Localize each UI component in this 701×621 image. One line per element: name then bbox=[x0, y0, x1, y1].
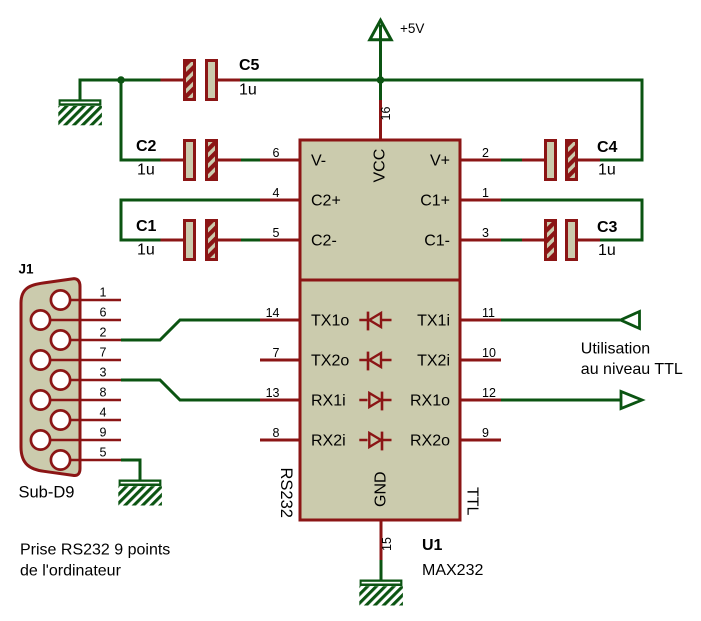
buffer arrow RX2 bbox=[359, 432, 391, 451]
pin label V- bbox=[311, 153, 326, 170]
connector pin 1 bbox=[61, 299, 122, 302]
pin label C2+ bbox=[311, 193, 341, 210]
svg-text:C2: C2 bbox=[136, 138, 157, 155]
svg-text:de l'ordinateur: de l'ordinateur bbox=[20, 563, 122, 580]
svg-text:1u: 1u bbox=[137, 242, 155, 259]
svg-text:3: 3 bbox=[100, 366, 107, 380]
svg-text:13: 13 bbox=[266, 386, 280, 400]
pin number 3 bbox=[482, 226, 489, 240]
wire pin12 to TTL output arrow bbox=[501, 399, 621, 402]
capacitor C4 bbox=[522, 141, 600, 180]
label C3 bbox=[597, 219, 618, 236]
connector pin 2 bbox=[61, 339, 122, 342]
value 1u bbox=[239, 82, 257, 99]
pin 14 stub TX1o bbox=[260, 319, 300, 322]
svg-text:1u: 1u bbox=[137, 162, 155, 179]
svg-text:C2+: C2+ bbox=[311, 193, 341, 210]
svg-text:12: 12 bbox=[482, 386, 496, 400]
svg-text:5: 5 bbox=[273, 226, 280, 240]
pin label TX1o bbox=[311, 313, 349, 330]
connector pin 3 bbox=[61, 379, 122, 382]
svg-text:15: 15 bbox=[380, 537, 394, 551]
svg-text:14: 14 bbox=[266, 306, 280, 320]
svg-text:8: 8 bbox=[100, 386, 107, 400]
svg-text:U1: U1 bbox=[422, 537, 443, 554]
pin number 9 bbox=[482, 426, 489, 440]
svg-text:VCC: VCC bbox=[372, 149, 389, 183]
svg-text:TX2i: TX2i bbox=[417, 353, 450, 370]
connector pin 9 bbox=[41, 439, 122, 442]
wire right vertical from rail to C4 bbox=[600, 79, 642, 161]
pin number 8 bbox=[273, 426, 280, 440]
svg-text:V+: V+ bbox=[430, 153, 450, 170]
svg-text:7: 7 bbox=[100, 346, 107, 360]
connector pin 8 bbox=[41, 399, 122, 402]
svg-text:RX2o: RX2o bbox=[410, 433, 450, 450]
svg-text:C4: C4 bbox=[597, 139, 618, 156]
svg-text:4: 4 bbox=[100, 406, 107, 420]
svg-text:2: 2 bbox=[482, 146, 489, 160]
pin number 5 bbox=[100, 446, 107, 460]
svg-text:TX1o: TX1o bbox=[311, 313, 349, 330]
svg-text:RS232: RS232 bbox=[277, 468, 295, 518]
label TTL rotated bbox=[464, 487, 481, 516]
connector pin 6 bbox=[41, 319, 122, 322]
svg-text:TX1i: TX1i bbox=[417, 313, 450, 330]
pin 10 stub TX2i bbox=[460, 359, 501, 362]
svg-text:C2-: C2- bbox=[311, 233, 337, 250]
pin number 12 bbox=[482, 386, 496, 400]
pin number 5 bbox=[273, 226, 280, 240]
svg-text:1: 1 bbox=[100, 286, 107, 300]
op IC U1 body MAX232 bbox=[299, 140, 462, 520]
wire pin2 to C4 bbox=[501, 159, 522, 162]
wire C2 to pin 6 bbox=[241, 159, 260, 162]
pin 7 stub TX2o bbox=[260, 359, 300, 362]
wire connector pin5 to ground bbox=[121, 460, 140, 480]
pin 9 stub RX2o bbox=[460, 439, 501, 442]
wire pin11 to TTL input arrow bbox=[501, 319, 620, 322]
pin number 9 bbox=[100, 426, 107, 440]
svg-text:C1+: C1+ bbox=[420, 193, 450, 210]
svg-text:TX2o: TX2o bbox=[311, 353, 349, 370]
svg-text:1u: 1u bbox=[598, 242, 616, 259]
capacitor C2 bbox=[161, 141, 242, 180]
junction bbox=[117, 76, 125, 84]
pin number 1 bbox=[482, 186, 489, 200]
svg-text:2: 2 bbox=[100, 326, 107, 340]
svg-text:Sub-D9: Sub-D9 bbox=[19, 484, 75, 502]
pin 1 stub C1+ bbox=[460, 199, 501, 202]
pin label RX1i bbox=[311, 393, 346, 410]
connector pin 4 bbox=[61, 419, 122, 422]
value 1u bbox=[137, 162, 155, 179]
svg-text:+5V: +5V bbox=[400, 21, 424, 36]
label Sub-D9 bbox=[19, 484, 75, 502]
ground bbox=[118, 480, 162, 506]
wire +5V rail top horizontal bbox=[80, 79, 642, 82]
svg-text:MAX232: MAX232 bbox=[422, 562, 483, 579]
pin 15 GND stub bbox=[380, 520, 383, 560]
capacitor C1 bbox=[161, 221, 242, 260]
wire left drop to ground bbox=[79, 79, 82, 101]
ground bbox=[58, 99, 102, 125]
pin number 13 bbox=[266, 386, 280, 400]
svg-text:11: 11 bbox=[482, 306, 495, 320]
connector J1 Sub-D9 body bbox=[21, 279, 80, 476]
svg-text:8: 8 bbox=[273, 426, 280, 440]
wire pin13 to connector pin3 bbox=[121, 380, 260, 400]
label C5 bbox=[239, 57, 260, 74]
capacitor C5 bbox=[161, 61, 241, 100]
svg-text:10: 10 bbox=[482, 346, 496, 360]
svg-text:6: 6 bbox=[100, 306, 107, 320]
pin 8 stub RX2i bbox=[260, 439, 300, 442]
pin number 16 bbox=[379, 107, 393, 121]
svg-text:V-: V- bbox=[311, 153, 326, 170]
svg-text:7: 7 bbox=[273, 346, 280, 360]
connector pin 5 bbox=[61, 459, 122, 462]
capacitor C3 bbox=[522, 221, 600, 260]
pin number 2 bbox=[482, 146, 489, 160]
pin label TX2i bbox=[417, 353, 450, 370]
pin 2 stub V+ bbox=[460, 159, 501, 162]
pin number 7 bbox=[273, 346, 280, 360]
wire C1 to pin 5 bbox=[241, 239, 260, 242]
pin number 4 bbox=[273, 186, 280, 200]
svg-text:au niveau TTL: au niveau TTL bbox=[581, 361, 683, 378]
pin label TX2o bbox=[311, 353, 349, 370]
svg-text:GND: GND bbox=[373, 471, 390, 507]
pin number 1 bbox=[100, 286, 107, 300]
buffer arrow TX2 bbox=[359, 352, 391, 371]
connector pin 7 bbox=[41, 359, 122, 362]
wire VCC drop bbox=[379, 80, 382, 100]
svg-text:RX1i: RX1i bbox=[311, 393, 346, 410]
pin label RX2o bbox=[410, 433, 450, 450]
wire pin1 bracket to C3 bbox=[501, 200, 642, 240]
pin number 8 bbox=[100, 386, 107, 400]
svg-text:C3: C3 bbox=[597, 219, 618, 236]
label C1 bbox=[136, 218, 157, 235]
pin label C1+ bbox=[420, 193, 450, 210]
pin 4 stub bbox=[260, 199, 300, 202]
pin number 2 bbox=[100, 326, 107, 340]
wire pin3 to C3 bbox=[501, 239, 522, 242]
svg-text:C1: C1 bbox=[136, 218, 157, 235]
svg-text:1u: 1u bbox=[598, 162, 616, 179]
svg-text:3: 3 bbox=[482, 226, 489, 240]
pin 13 stub RX1i bbox=[260, 399, 300, 402]
label C2 bbox=[136, 138, 157, 155]
label GND rotated bbox=[373, 471, 390, 507]
pin label C2- bbox=[311, 233, 337, 250]
node TTL input arrow bbox=[621, 312, 640, 329]
pin number 4 bbox=[100, 406, 107, 420]
junction VCC bbox=[377, 76, 385, 84]
buffer arrow RX1 bbox=[359, 392, 391, 411]
svg-text:4: 4 bbox=[273, 186, 280, 200]
wire pin 4 bracket to C1 bbox=[121, 200, 260, 240]
label VCC rotated bbox=[372, 149, 389, 183]
label Prise RS232 9 points de l'ordinateur bbox=[20, 542, 170, 580]
connector holes bbox=[31, 290, 70, 469]
label J1 bbox=[19, 262, 35, 277]
value 1u bbox=[598, 242, 616, 259]
svg-text:16: 16 bbox=[379, 107, 393, 121]
svg-text:1u: 1u bbox=[239, 82, 257, 99]
pin number 3 bbox=[100, 366, 107, 380]
wire pin14 to connector pin2 bbox=[121, 320, 260, 340]
pin number 10 bbox=[482, 346, 496, 360]
value MAX232 bbox=[422, 562, 483, 579]
pin label V+ bbox=[430, 153, 450, 170]
pin 3 stub C1- bbox=[460, 239, 501, 242]
buffer arrow TX1 bbox=[359, 312, 391, 331]
svg-text:C1-: C1- bbox=[424, 233, 450, 250]
pin number 6 bbox=[100, 306, 107, 320]
value 1u bbox=[137, 242, 155, 259]
wire junction down to C2 bbox=[121, 80, 161, 160]
svg-text:J1: J1 bbox=[19, 262, 35, 277]
pin 11 stub TX1i bbox=[460, 319, 501, 322]
pin label C1- bbox=[424, 233, 450, 250]
svg-text:9: 9 bbox=[100, 426, 107, 440]
pin 6 stub bbox=[260, 159, 300, 162]
pin number 6 bbox=[273, 146, 280, 160]
pin 12 stub RX1o bbox=[460, 399, 501, 402]
pin number 15 bbox=[380, 537, 394, 551]
pin label RX1o bbox=[410, 393, 450, 410]
label RS232 rotated bbox=[277, 468, 295, 518]
label +5V bbox=[400, 21, 424, 36]
svg-text:1: 1 bbox=[482, 186, 489, 200]
svg-text:Prise RS232 9 points: Prise RS232 9 points bbox=[20, 542, 170, 559]
ground bbox=[359, 580, 403, 606]
svg-text:5: 5 bbox=[100, 446, 107, 460]
pin 16 VCC stub bbox=[379, 100, 382, 141]
pin 5 stub bbox=[260, 239, 300, 242]
svg-text:Utilisation: Utilisation bbox=[581, 340, 650, 357]
svg-text:RX2i: RX2i bbox=[311, 433, 346, 450]
svg-text:9: 9 bbox=[482, 426, 489, 440]
label Utilisation au niveau TTL bbox=[581, 340, 683, 378]
pin label RX2i bbox=[311, 433, 346, 450]
pin label TX1i bbox=[417, 313, 450, 330]
wire pin15 to ground bbox=[380, 560, 383, 580]
label U1 bbox=[422, 537, 443, 554]
node TTL output arrow bbox=[621, 392, 642, 409]
svg-text:TTL: TTL bbox=[464, 487, 481, 516]
pin number 14 bbox=[266, 306, 280, 320]
svg-text:6: 6 bbox=[273, 146, 280, 160]
svg-text:RX1o: RX1o bbox=[410, 393, 450, 410]
label C4 bbox=[597, 139, 618, 156]
power +5V bbox=[370, 20, 391, 80]
pin number 11 bbox=[482, 306, 495, 320]
value 1u bbox=[598, 162, 616, 179]
svg-text:C5: C5 bbox=[239, 57, 260, 74]
pin number 7 bbox=[100, 346, 107, 360]
